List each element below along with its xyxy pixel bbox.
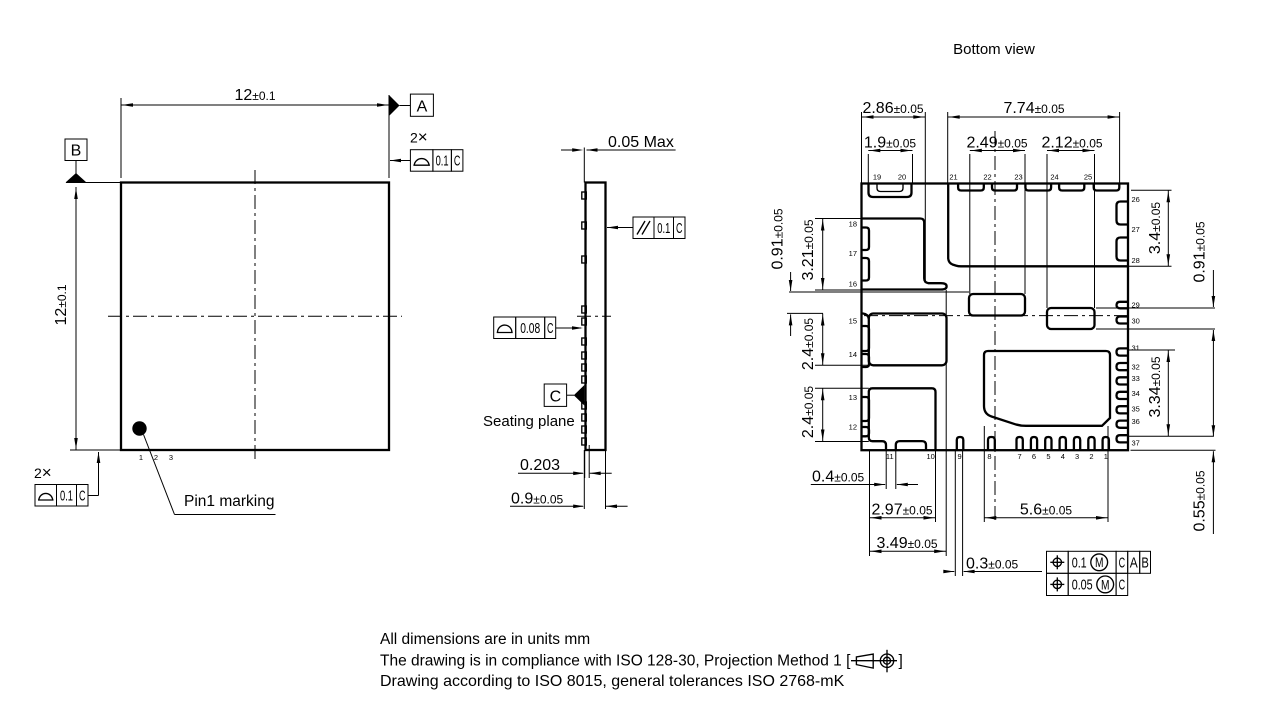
svg-text:C: C [1119,555,1126,572]
svg-text:21: 21 [949,173,957,182]
svg-text:Pin1 marking: Pin1 marking [184,493,274,510]
dimension 0.9±0.05 [510,450,628,509]
bottom view package outline [862,184,1129,451]
svg-text:1: 1 [139,453,143,462]
svg-text:12±0.1: 12±0.1 [234,87,275,104]
side view seating plane line [583,148,585,183]
svg-text:3.34±0.05: 3.34±0.05 [1147,356,1164,417]
svg-text:24: 24 [1050,173,1058,182]
bottom view horizontal center line [864,315,1128,317]
svg-text:22: 22 [983,173,991,182]
top view package outline [121,183,389,451]
large bottom pad [984,351,1110,426]
left edge notches pins 12-18 [862,228,870,437]
center pad pins 24-25 [1047,308,1095,329]
svg-text:C: C [550,388,562,405]
svg-text:All dimensions are in units mm: All dimensions are in units mm [380,631,590,648]
svg-text:8: 8 [987,452,991,461]
side view body [586,183,606,451]
dimension 0.203 [518,445,612,478]
pin labels 26-37 [1132,195,1140,447]
svg-text:2.86±0.05: 2.86±0.05 [862,100,923,117]
svg-text:2.4±0.05: 2.4±0.05 [800,386,817,439]
svg-text:3.21±0.05: 3.21±0.05 [800,219,817,280]
lower-left pad pins 12-13 with bumps 10-11 [869,388,936,450]
dimension 3.34±0.05 [1128,350,1214,436]
L-shaped pad pins 16-18 [862,219,947,290]
large top pad boundary [948,184,1128,267]
dimension 3.49±0.05 [870,290,947,556]
svg-text:12: 12 [849,423,857,432]
svg-text:35: 35 [1132,405,1140,414]
svg-text:12±0.1: 12±0.1 [53,284,70,325]
projection method symbol [851,650,903,673]
svg-text:23: 23 [1014,173,1022,182]
svg-text:2×: 2× [410,128,428,147]
svg-text:C: C [79,487,86,504]
svg-text:30: 30 [1132,317,1140,326]
svg-text:The drawing is in compliance w: The drawing is in compliance with ISO 12… [380,653,851,670]
svg-text:3.4±0.05: 3.4±0.05 [1147,202,1164,255]
svg-text:1.9±0.05: 1.9±0.05 [864,135,917,152]
position tolerance frames [1047,551,1151,595]
dimension 0.91±0.05 right [1096,221,1215,436]
side view center line [577,315,611,317]
svg-text:0.91±0.05: 0.91±0.05 [1192,221,1209,282]
dimension 2.97±0.05 [870,445,936,556]
dimension 0.4±0.05 [811,450,918,489]
top edge notches pins 21-25 [958,184,1119,191]
svg-text:2×: 2× [34,463,52,482]
dimension 12±0.1 horizontal top [121,87,389,178]
svg-text:20: 20 [898,173,906,182]
svg-text:M: M [1101,576,1110,592]
svg-text:11: 11 [886,452,894,461]
side view pin bumps [582,192,587,445]
svg-text:33: 33 [1132,374,1140,383]
svg-text:0.05: 0.05 [1072,577,1093,594]
svg-text:14: 14 [849,350,857,359]
right edge notches pins 26-37 [1117,202,1129,443]
pin labels 19-25 [873,173,1092,182]
svg-text:26: 26 [1132,195,1140,204]
svg-text:27: 27 [1132,225,1140,234]
svg-text:16: 16 [849,280,857,289]
svg-text:2.4±0.05: 2.4±0.05 [800,318,817,371]
svg-text:M: M [1095,554,1104,570]
dimension 5.6±0.05 [984,426,1108,522]
svg-text:3: 3 [1075,452,1079,461]
bottom view vertical center line [994,131,996,520]
svg-text:0.1: 0.1 [436,153,449,170]
2x profile tolerance frame bottom-left [34,452,100,506]
svg-text:15: 15 [849,317,857,326]
svg-text:5.6±0.05: 5.6±0.05 [1020,502,1073,519]
2x profile tolerance frame top-right [390,128,463,172]
svg-text:0.55±0.05: 0.55±0.05 [1192,470,1209,531]
svg-text:2: 2 [154,453,158,462]
svg-text:10: 10 [927,452,935,461]
svg-text:2.49±0.05: 2.49±0.05 [966,135,1027,152]
svg-text:18: 18 [849,220,857,229]
dimension 2.4±0.05 upper [800,314,869,371]
svg-text:0.3±0.05: 0.3±0.05 [966,556,1019,573]
dimension 0.3±0.05 [943,450,1042,576]
datum A flag [389,94,433,116]
svg-text:25: 25 [1084,173,1092,182]
parallelism tolerance frame [607,217,685,239]
svg-text:B: B [71,143,82,160]
top view horizontal center line [108,315,402,317]
bottom edge obround pins 1-9 [957,437,1109,450]
svg-text:19: 19 [873,173,881,182]
svg-text:B: B [1141,555,1149,572]
dimension 3.21±0.05 [800,219,862,291]
dimension 2.49±0.05 [966,135,1027,295]
svg-text:A: A [1130,555,1138,572]
mid-left pad corner tab [862,314,869,320]
svg-text:0.9±0.05: 0.9±0.05 [511,491,564,508]
center pad pins 22-23 [969,294,1025,316]
pin labels 1-11 [886,452,1108,461]
svg-text:5: 5 [1046,452,1050,461]
svg-text:36: 36 [1132,417,1140,426]
dimension 3.4±0.05 [1128,190,1172,266]
svg-text:0.05 Max: 0.05 Max [608,134,674,151]
dimension 2.4±0.05 lower [800,386,869,442]
dimension 1.9±0.05 [864,135,917,184]
dimension 0.05 Max [561,134,676,152]
svg-text:0.91±0.05: 0.91±0.05 [769,208,786,269]
svg-text:]: ] [899,653,903,670]
svg-text:0.1: 0.1 [657,220,670,237]
svg-text:7.74±0.05: 7.74±0.05 [1003,100,1064,117]
svg-text:3.49±0.05: 3.49±0.05 [876,535,937,552]
svg-text:2.97±0.05: 2.97±0.05 [871,502,932,519]
svg-text:A: A [417,98,428,115]
svg-text:28: 28 [1132,256,1140,265]
dimension 2.12±0.05 [1041,135,1102,309]
dimension 0.91±0.05 left [769,208,969,336]
svg-text:C: C [676,220,683,237]
svg-text:2.12±0.05: 2.12±0.05 [1041,135,1102,152]
svg-text:7: 7 [1018,452,1022,461]
svg-text:Seating plane: Seating plane [483,413,575,430]
mid-left pad pins 14-15 [869,314,947,366]
svg-text:0.1: 0.1 [60,487,73,504]
svg-text:C: C [1119,577,1126,594]
svg-text:13: 13 [849,393,857,402]
svg-text:6: 6 [1032,452,1036,461]
pin labels 12-18 [849,220,857,432]
svg-text:4: 4 [1061,452,1065,461]
dimension 12±0.1 vertical left [53,187,121,450]
svg-text:9: 9 [958,452,962,461]
pin1 marking dot and leader [132,421,275,514]
dimension 7.74±0.05 [948,100,1120,184]
datum B flag [65,139,121,183]
pad pins 19-20 [869,184,912,198]
datum C flag [544,384,584,406]
dimension 0.55±0.05 [1131,425,1216,534]
profile 0.08 tolerance frame [494,317,583,339]
svg-text:31: 31 [1132,343,1140,352]
svg-text:0.08: 0.08 [520,320,540,337]
svg-text:C: C [454,153,461,170]
svg-text:0.4±0.05: 0.4±0.05 [812,469,865,486]
svg-text:Drawing according to ISO 8015,: Drawing according to ISO 8015, general t… [380,673,845,690]
svg-text:1: 1 [1104,452,1108,461]
svg-text:Bottom view: Bottom view [953,41,1035,58]
svg-text:C: C [547,320,554,337]
svg-text:34: 34 [1132,389,1140,398]
dimension 2.86±0.05 [862,100,926,283]
svg-text:37: 37 [1132,438,1140,447]
svg-text:3: 3 [169,453,173,462]
svg-text:2: 2 [1089,452,1093,461]
top view vertical center line [254,170,256,463]
svg-text:0.203: 0.203 [520,457,560,474]
svg-text:17: 17 [849,249,857,258]
svg-text:0.1: 0.1 [1072,555,1087,572]
svg-text:32: 32 [1132,363,1140,372]
